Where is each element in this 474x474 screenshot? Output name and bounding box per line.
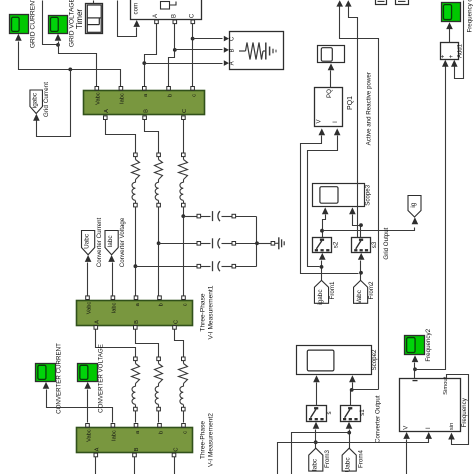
junction cap tap B [157, 241, 161, 245]
svg-text:A: A [95, 320, 101, 324]
block three-phase V-I measurement (top) [84, 91, 205, 115]
junction s2 out [320, 229, 324, 233]
wire From3 branch to Frequency I [278, 439, 429, 474]
wire RL2 A to m2 a [135, 411, 137, 423]
wire RL2 C to m2 c [183, 411, 185, 423]
svg-text:s1: s1 [359, 409, 366, 416]
wire com feed [118, 1, 137, 37]
wire Frequency V feed [406, 440, 408, 474]
switch s2 [313, 238, 340, 253]
svg-text:c: c [191, 94, 197, 97]
subsystem block stub 2 (top edge) [396, 0, 409, 5]
block three-phase breaker [131, 0, 202, 20]
svg-text:Scope2: Scope2 [371, 349, 378, 371]
arrow into s3 [358, 253, 365, 260]
wire Vabc from measurement [59, 45, 97, 89]
wire m1 Vabc to Uabc goto [87, 263, 89, 297]
arrow into Uabc goto [85, 255, 92, 262]
arrow into Scope3 left [322, 207, 329, 214]
block PQ1 [315, 88, 354, 127]
wire m0 C to RL branch 3 [183, 120, 185, 154]
arrow into Frequency V [403, 432, 410, 439]
svg-text:igabc: igabc [317, 289, 324, 305]
capacitor row phase A [136, 261, 257, 271]
svg-text:From2: From2 [368, 281, 375, 299]
wire Vabc riser off-image [43, 1, 59, 45]
block three-phase V-I measurement2 [77, 413, 215, 467]
wire m1 Iabc to Iabc goto [112, 263, 114, 297]
label Active and Reactive power [366, 72, 373, 145]
subsystem block stub 1 (top edge) [376, 0, 387, 5]
port m2 top b [158, 424, 162, 428]
svg-text:s2: s2 [333, 241, 340, 248]
junction Vabc branch [56, 43, 60, 47]
svg-text:+: + [448, 54, 455, 58]
arrow into CONVERTER CURRENT [43, 382, 50, 389]
arrow into Frequency I [425, 432, 432, 439]
label B breaker [171, 14, 177, 18]
svg-text:c: c [182, 303, 188, 306]
svg-text:V-I Measurement2: V-I Measurement2 [208, 413, 215, 467]
junction phase C to source [191, 37, 195, 41]
wire breaker A to measurement a [145, 24, 157, 89]
junction From3 branch [314, 440, 318, 444]
junction From2 branch [359, 271, 363, 275]
port m2 top Iabc [111, 424, 115, 428]
arrow into PQ1 V [319, 128, 326, 135]
junction cap tap C [181, 214, 185, 218]
svg-text:C: C [173, 320, 179, 324]
port m2 bottom C [172, 453, 176, 457]
port top x96.8 of measurement top [95, 87, 99, 91]
wire riser 1 (converter output up) [340, 7, 379, 390]
svg-text:Iabc: Iabc [311, 458, 318, 471]
block Frequency [400, 376, 469, 431]
wire From4 branch down-left [292, 433, 350, 474]
wire Frequency out to Add1 [415, 67, 446, 370]
svg-text:Frequency: Frequency [461, 397, 468, 427]
wire PQ1 I feed [308, 136, 338, 267]
wire phase B to source block [175, 47, 230, 53]
arrow to upper subsystem 1 [336, 0, 343, 6]
junction From1 branch [320, 265, 324, 269]
wire From4 to s1 [349, 430, 351, 449]
wire From3 to s [315, 430, 317, 449]
wire s1 out to Scope2 [352, 383, 353, 390]
port bottom x183.4 of measurement top [182, 116, 186, 120]
port ground [271, 242, 275, 246]
wire Add1 out [449, 29, 451, 43]
svg-text:ig: ig [410, 202, 417, 207]
wire column C down to m1 c [183, 207, 185, 297]
port m2 top Vabc [86, 424, 90, 428]
series RL branch set1 phase A [132, 153, 140, 207]
port m1 top Iabc [111, 296, 115, 300]
arrow into GRID VOLTAGE scope [55, 34, 62, 41]
svg-text:A: A [95, 447, 101, 451]
goto tag Uabc (Converter Current) [82, 217, 103, 267]
svg-text:b: b [167, 94, 173, 97]
scope Scope2 [297, 346, 378, 375]
junction collector to ground [255, 241, 259, 245]
wire m0 A to RL branch 1 [106, 120, 136, 154]
wire m0 B to RL branch 2 [145, 120, 159, 154]
port m1 bottom A [94, 326, 98, 330]
svg-text:Active and Reactive power: Active and Reactive power [366, 72, 373, 145]
svg-text:C: C [182, 109, 188, 113]
arrow into Scope2 right [349, 375, 356, 382]
wire m1 C to RL2 branch 3 [175, 330, 184, 358]
scope Scope3 [313, 184, 372, 207]
svg-text:Uabc: Uabc [345, 457, 352, 473]
switch s1 [341, 406, 367, 422]
wire grid output to ig [323, 228, 415, 231]
from tag Vabc From2 [354, 280, 376, 304]
label Converter Output [374, 395, 381, 443]
svg-text:+: + [440, 54, 447, 58]
svg-text:sin: sin [449, 423, 455, 431]
svg-text:Iabc: Iabc [112, 430, 118, 441]
label A breaker [153, 14, 159, 18]
svg-text:Uabc: Uabc [84, 233, 91, 249]
wire Simout loop [447, 375, 469, 445]
port C of breaker [191, 20, 195, 24]
svg-text:com: com [133, 3, 140, 15]
junction s1 out [350, 388, 354, 392]
capacitor row phase C [184, 211, 257, 221]
port m1 bottom B [134, 326, 138, 330]
switch s [307, 406, 333, 422]
svg-text:A: A [230, 61, 236, 65]
wire Iabc branch to igabc goto [37, 70, 71, 137]
port m1 top Vabc [86, 296, 90, 300]
wire column A down to m1 a [135, 207, 137, 297]
port m1 bottom C [173, 326, 177, 330]
from tag Iabc From3 [309, 448, 331, 471]
series RL branch set2 phase B [155, 357, 163, 411]
wire Add1 right feed [455, 1, 464, 79]
svg-text:Iabc: Iabc [112, 302, 118, 313]
wire PQ1 V feed [301, 136, 359, 274]
from tag igabc From1 [314, 280, 335, 304]
svg-text:b: b [158, 431, 164, 434]
svg-text:Three-Phase: Three-Phase [200, 293, 207, 331]
svg-text:Three-Phase: Three-Phase [200, 421, 207, 459]
svg-text:GRID CURRENT: GRID CURRENT [30, 0, 37, 48]
wire PQ1 out to scope [330, 71, 332, 88]
wire breaker B to measurement b [169, 24, 175, 89]
port top x168.6 of measurement top [167, 87, 171, 91]
wire From2 to s3 [360, 261, 362, 281]
wire capacitor collector [256, 217, 258, 267]
wire m2 C down [174, 457, 176, 474]
svg-text:B: B [134, 320, 140, 324]
label C breaker [189, 13, 195, 18]
wire breaker C to measurement c [192, 24, 194, 89]
svg-text:A: A [153, 14, 159, 18]
wire m1 B to RL2 branch 2 [136, 330, 159, 358]
svg-text:Converter Current: Converter Current [96, 217, 103, 267]
arrow into ig goto [412, 217, 419, 224]
goto tag ig (Grid Output) [408, 196, 421, 218]
arrow into s1 [346, 422, 353, 429]
wire m2 Iabc to CONVERTER CURRENT [47, 390, 113, 423]
arrow into PQ1 I [334, 128, 341, 135]
wire to ground [257, 243, 272, 245]
wire m2 B down [134, 457, 136, 474]
svg-text:B: B [230, 48, 236, 52]
scope GRID CURRENT [10, 0, 37, 48]
junction phase A to source [142, 61, 146, 65]
wire m2 A down [95, 457, 97, 474]
arrow into Iabc goto [108, 255, 115, 262]
block Timer [75, 4, 103, 34]
port m2 top c [182, 424, 186, 428]
junction s3 out [359, 223, 363, 227]
svg-text:Scope3: Scope3 [364, 184, 371, 206]
svg-text:Vabc: Vabc [96, 92, 102, 105]
wire Vabc to GRID VOLTAGE scope [58, 42, 60, 45]
port m1 top c [182, 296, 186, 300]
arrow into Frequency2 [412, 355, 419, 362]
junction From4 branch [347, 431, 351, 435]
svg-text:C: C [189, 13, 195, 18]
block Add1 [440, 43, 464, 60]
scope above PQ1 [318, 46, 345, 63]
goto tag igabc (Grid Current) [30, 82, 50, 117]
wire s1 out to riser1 [352, 389, 379, 391]
block three-phase V-I measurement1 [77, 285, 215, 339]
svg-text:B: B [171, 14, 177, 18]
wire phase A to source block [145, 60, 230, 66]
port m1 top a [134, 296, 138, 300]
switch s3 [352, 238, 379, 253]
svg-text:Grid Current: Grid Current [43, 82, 50, 117]
svg-text:Vabc: Vabc [86, 429, 92, 442]
port top x144.3 of measurement top [143, 87, 147, 91]
arrow into GRID CURRENT scope [15, 34, 22, 41]
svg-text:s: s [326, 411, 333, 414]
ground symbol [275, 237, 285, 249]
svg-text:B: B [134, 447, 140, 451]
port m2 bottom B [133, 453, 137, 457]
arrow into CONVERTER VOLTAGE [84, 382, 91, 389]
arrow into scope above PQ1 [328, 63, 335, 70]
wire s1 out [351, 390, 352, 406]
svg-text:Frequency2: Frequency2 [425, 328, 432, 361]
wire Timer top [93, 1, 95, 4]
port top x120.9 of measurement top [119, 87, 123, 91]
scope CONVERTER VOLTAGE [78, 344, 105, 413]
svg-text:b: b [158, 303, 164, 306]
wire Iabc to GRID CURRENT scope [19, 42, 121, 89]
svg-text:Converter Output: Converter Output [374, 395, 381, 443]
arrow into s [313, 422, 320, 429]
scope CONVERTER CURRENT [36, 343, 63, 414]
wire column B down to m1 b [158, 207, 160, 297]
series RL branch set2 phase A [132, 357, 140, 411]
arrow into Scope2 left [313, 375, 320, 382]
port m2 top a [134, 424, 138, 428]
port top x192.6 of measurement top [191, 87, 195, 91]
series RL branch set1 phase C [179, 153, 188, 207]
svg-text:s3: s3 [371, 241, 378, 248]
from tag Uabc From4 [342, 448, 364, 472]
svg-text:Iabc: Iabc [107, 235, 114, 248]
arrow to upper subsystem 2 [345, 0, 352, 6]
arrow into Frequency converter scope [446, 22, 453, 29]
svg-text:Add1: Add1 [458, 43, 464, 58]
scope Frequency converter (top right) [442, 0, 474, 33]
svg-text:From3: From3 [324, 450, 331, 468]
block three-phase source [230, 32, 284, 70]
port m1 top b [158, 296, 162, 300]
arrow into Add1 right [451, 60, 458, 67]
svg-text:PQ1: PQ1 [347, 96, 354, 110]
arrow into Scope3 right [349, 207, 356, 214]
scope GRID VOLTAGE [49, 0, 76, 47]
scope Frequency2 [405, 328, 433, 361]
wire s2 out to Scope3 [323, 215, 326, 238]
svg-text:c: c [182, 431, 188, 434]
port bottom x105.3 of measurement top [104, 116, 108, 120]
svg-text:Vabc: Vabc [356, 289, 363, 304]
capacitor row phase B [159, 238, 257, 248]
svg-text:PQ: PQ [326, 89, 333, 98]
port A of breaker [155, 20, 159, 24]
label Grid Output [383, 227, 390, 259]
junction Frequency out [413, 367, 417, 371]
wire riser 2 (grid voltage up) [349, 7, 358, 238]
wire phase C to source block [193, 36, 230, 42]
wire Frequency out [414, 363, 416, 379]
svg-text:C: C [230, 36, 236, 41]
arrow into Add1 left [442, 60, 449, 67]
svg-text:Vabc: Vabc [86, 302, 92, 315]
goto tag Iabc (Converter Voltage) [105, 217, 126, 267]
svg-text:From4: From4 [358, 450, 365, 468]
svg-text:V-I Measurement1: V-I Measurement1 [208, 285, 215, 339]
svg-text:A: A [104, 109, 110, 113]
series RL branch set2 phase C [179, 357, 188, 411]
junction cap tap A [134, 264, 138, 268]
svg-text:Grid Output: Grid Output [383, 227, 390, 259]
svg-text:Timer: Timer [75, 9, 84, 29]
svg-text:Simout: Simout [443, 376, 449, 394]
svg-text:V: V [404, 426, 410, 430]
svg-text:Frequency c: Frequency c [467, 0, 474, 33]
svg-text:C: C [173, 447, 179, 451]
wire RL2 B to m2 b [158, 411, 160, 423]
port B of breaker [173, 20, 177, 24]
series RL branch set1 phase B [155, 153, 163, 207]
svg-text:Iabc: Iabc [120, 93, 126, 104]
junction phase B to source [173, 48, 177, 52]
wire s3 out to Scope3 [353, 215, 361, 238]
svg-text:igabc: igabc [32, 92, 39, 108]
arrow into igabc goto [33, 114, 40, 121]
wire m1 A to RL2 branch 1 [96, 330, 136, 358]
junction Iabc branch [68, 68, 72, 72]
arrow into s2 [319, 253, 326, 260]
svg-text:Converter Voltage: Converter Voltage [119, 217, 126, 267]
arrow into breaker com [133, 20, 140, 27]
svg-text:From1: From1 [329, 281, 336, 299]
arrow into Frequency sin [448, 433, 455, 440]
svg-text:B: B [143, 109, 149, 113]
port m2 bottom A [94, 453, 98, 457]
wire m2 Vabc to CONVERTER VOLTAGE [87, 390, 89, 423]
svg-text:V: V [316, 119, 322, 123]
svg-text:CONVERTER CURRENT: CONVERTER CURRENT [56, 343, 63, 414]
wire From1 to s2 [321, 261, 323, 281]
wire s out to Scope2 [316, 383, 318, 406]
svg-text:CONVERTER VOLTAGE: CONVERTER VOLTAGE [98, 344, 105, 413]
port bottom x144.6 of measurement top [143, 116, 147, 120]
